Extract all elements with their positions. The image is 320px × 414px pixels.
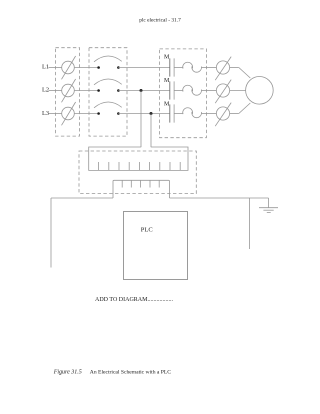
PLC U1 box (124, 212, 188, 280)
overload heater OL1 (183, 62, 202, 72)
svg-text:L3: L3 (42, 110, 49, 117)
svg-text:plc electrical - 31.7: plc electrical - 31.7 (139, 17, 181, 23)
caption figure number (53, 370, 82, 376)
note ADD TO DIAGRAM (95, 297, 173, 303)
disconnect switch S2 circle (62, 79, 76, 102)
disconnect switch S3 circle (62, 102, 76, 125)
motor MTR circle (246, 77, 274, 105)
wire disconnect S1 to breaker CB1 (74, 67, 98, 69)
wire L2 to disconnect (49, 90, 62, 92)
wire bus left drop (50, 198, 52, 268)
page header text (139, 17, 181, 23)
motor terminal T3 circle (215, 103, 231, 127)
wire disconnect S3 to breaker CB3 (74, 113, 98, 115)
ground (259, 208, 278, 213)
wire M3 to overload OL3 (174, 112, 183, 114)
wire J2 drop to terminal strip (140, 91, 142, 148)
wire CB3 to contactor M3 (118, 113, 169, 115)
node J3 junction dot (150, 112, 153, 115)
contactor contact M3 (170, 104, 174, 122)
terminal strip upper connector (89, 147, 188, 170)
wire T2 to motor (230, 90, 246, 92)
wire OL1 to terminal T1 (201, 67, 216, 69)
overload heater OL3 (183, 108, 202, 118)
label M (row 3) (164, 101, 170, 107)
disconnect dashed box DB1 (56, 48, 80, 136)
disconnect switch S1 circle (62, 56, 76, 79)
wire M1 to overload OL1 (174, 66, 183, 68)
svg-text:ADD TO DIAGRAM................: ADD TO DIAGRAM................. (95, 297, 173, 303)
label L2 (42, 86, 49, 93)
wire T1 to motor (230, 68, 251, 79)
svg-text:M: M (164, 54, 170, 60)
caption title (90, 370, 172, 376)
svg-text:Figure 31.5: Figure 31.5 (53, 370, 82, 376)
wire T3 to motor (230, 103, 251, 114)
plug lower connector (113, 180, 170, 198)
wire L1 to disconnect (49, 67, 62, 69)
wire bus left segment (51, 197, 113, 199)
svg-text:PLC: PLC (141, 227, 153, 234)
svg-text:L2: L2 (42, 86, 49, 93)
breaker CB3 contacts and arc (94, 102, 122, 115)
wire M2 to overload OL2 (174, 89, 183, 91)
label L1 (42, 63, 49, 70)
wire CB1 to contactor M1 (118, 67, 169, 69)
label L3 (42, 110, 49, 117)
wire CB2 to contactor M2 (118, 90, 169, 92)
contactor contact M2 (170, 81, 174, 99)
label PLC (141, 227, 153, 234)
motor terminal T1 circle (215, 57, 231, 81)
breaker dashed box DB2 (89, 48, 127, 136)
label M (row 1) (164, 54, 170, 60)
wire L3 to disconnect (49, 113, 62, 115)
svg-text:M: M (164, 101, 170, 107)
breaker CB1 contacts and arc (94, 56, 122, 69)
wire bus right drop (248, 198, 250, 249)
breaker CB2 contacts and arc (94, 79, 122, 92)
motor terminal T2 circle (215, 80, 231, 104)
node J2 junction dot (140, 89, 143, 92)
wire ground stub (268, 198, 270, 208)
svg-text:An Electrical Schematic with a: An Electrical Schematic with a PLC (90, 370, 172, 376)
wire J3 drop to terminal strip (150, 114, 152, 148)
contactor dashed box DB3 (160, 49, 207, 138)
wire OL2 to terminal T2 (201, 90, 216, 92)
contactor contact M1 (170, 58, 174, 76)
svg-text:L1: L1 (42, 63, 49, 70)
terminal dashed box DB4 (79, 151, 196, 194)
svg-text:M: M (164, 78, 170, 84)
wire disconnect S2 to breaker CB2 (74, 90, 98, 92)
label M (row 2) (164, 78, 170, 84)
overload heater OL2 (183, 85, 202, 95)
wire OL3 to terminal T3 (201, 113, 216, 115)
wire bus right segment (170, 197, 269, 199)
